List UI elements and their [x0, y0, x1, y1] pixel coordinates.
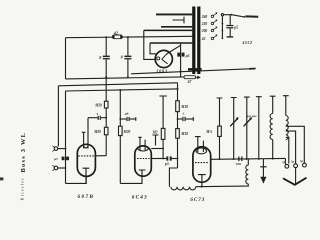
tube V1 grid dashed	[78, 155, 94, 157]
tube V3 6C73 envelope	[193, 137, 211, 187]
svg-text:1081: 1081	[156, 69, 168, 74]
svg-text:μse μsc: μse μsc	[245, 114, 257, 118]
wire secondary tap 1	[286, 126, 305, 163]
stem2 with trimmer	[230, 98, 238, 160]
transformer mains tap 200	[201, 27, 217, 33]
wire AVC bus B1	[58, 83, 177, 86]
svg-text:ℓp: ℓp	[300, 159, 303, 163]
terminal speaker 3	[303, 163, 307, 167]
wire heater riser to field coil	[246, 184, 248, 186]
terminal aerial A	[52, 146, 66, 152]
node junction dot rectifier output on HT line	[180, 71, 182, 73]
wire x120 column upper	[119, 90, 121, 126]
transformer output primary coil	[270, 114, 273, 140]
tube V2 dome	[138, 146, 148, 151]
svg-text:·1: ·1	[182, 111, 185, 115]
node junction dot V3 cathode	[201, 186, 203, 188]
transformer mains tap 220	[201, 20, 217, 26]
wire B1 left drop to aerial terminal	[57, 86, 59, 147]
transformer winding line 3	[144, 29, 193, 31]
wire rectifier plate feed upper	[144, 30, 156, 59]
transformer mains tap 240	[201, 13, 217, 19]
svg-text:M20: M20	[93, 130, 101, 134]
resistor R47 field feed	[184, 76, 201, 80]
node junction dot V2 plate line	[162, 148, 164, 150]
node junction dot right filter cap on top wire	[127, 36, 129, 38]
wire bottom HT return line to resistor R47	[66, 77, 184, 79]
svg-text:M20: M20	[123, 130, 131, 134]
capacitor 42 on top wire	[112, 35, 122, 39]
wire HT line under rectifier to right tip	[131, 69, 250, 74]
svg-text:·002: ·002	[235, 162, 241, 166]
tube V2 6C43 envelope	[135, 137, 152, 176]
tube V3 grid dashed	[195, 162, 209, 164]
node junction dot B1 x106	[105, 84, 107, 86]
stem3 with trimmer	[244, 97, 252, 159]
wire output line corner down to terminal	[284, 158, 286, 164]
svg-text:42: 42	[113, 30, 118, 35]
wire V2 plate line	[151, 148, 163, 150]
svg-text:607B: 607B	[78, 194, 95, 200]
wire field coil to output line	[247, 159, 249, 165]
tube V3 stub right	[202, 141, 204, 152]
terminal speaker 2	[294, 164, 298, 168]
node junction dot left filter cap on top wire	[105, 36, 107, 38]
node junction dot grid bus right end	[177, 88, 179, 90]
wire secondary tap 2	[286, 131, 296, 164]
terminal T grid V2 column	[159, 96, 167, 128]
svg-text:·1: ·1	[96, 112, 99, 116]
resistor M20 screen (x106 upper)	[104, 101, 108, 127]
svg-text:ℓp: ℓp	[291, 160, 294, 164]
rectifier tube V4 1081	[155, 50, 172, 67]
terminal earth E	[52, 165, 66, 171]
svg-text:μ5: μ5	[164, 162, 169, 166]
resistor M20 (x120)	[119, 126, 123, 183]
wire aerial line left vertical	[65, 91, 67, 183]
wire cathode return tube V2	[120, 176, 142, 183]
wire grid bus top edge	[66, 89, 178, 91]
terminal selector top	[221, 14, 223, 16]
capacitor aerial series	[62, 157, 69, 161]
svg-text:μ5: μ5	[185, 54, 190, 58]
svg-text:4152: 4152	[241, 40, 252, 45]
switch S1 mains blade	[232, 15, 259, 18]
tube V1 grid stub right from coupling cap	[87, 118, 89, 149]
svg-text:Kriesler: Kriesler	[19, 177, 24, 200]
svg-text:μ5: μ5	[53, 157, 58, 161]
wire primary coil bottom to line	[272, 140, 274, 159]
transformer bottom winding bar	[188, 68, 202, 71]
transformer winding line 4	[150, 42, 192, 44]
svg-text:μ5: μ5	[233, 25, 238, 29]
resistor M18 upper	[176, 101, 180, 129]
svg-text:M2: M2	[152, 131, 158, 135]
svg-text:47: 47	[187, 80, 192, 84]
transformer core bar right	[197, 7, 200, 75]
terminal T tube V3 top	[153, 135, 159, 146]
tube V2 stub right	[144, 140, 146, 150]
capacitor uS coupling (bottom middle)	[162, 156, 177, 160]
wire mains selector vertical	[221, 16, 223, 39]
svg-text:6C43: 6C43	[132, 194, 148, 200]
svg-text:240: 240	[201, 15, 208, 19]
capacitor line filter at mains	[226, 15, 233, 37]
wire secondary bottom tap	[286, 137, 289, 163]
tube V1 cathode	[83, 168, 90, 183]
wire V1 grid leak connection	[95, 155, 106, 157]
resistor M18 lower	[176, 129, 180, 168]
wire V3 plate to output line	[211, 157, 286, 160]
terminal speaker 1	[285, 164, 289, 168]
wire left vertical of HT loop	[65, 38, 67, 79]
node switch junction	[231, 14, 233, 16]
svg-text:6C73: 6C73	[190, 198, 205, 203]
transformer mains tap 45	[201, 35, 217, 41]
inductor heater winding	[171, 187, 196, 190]
svg-text:Boss 3 WL: Boss 3 WL	[20, 132, 27, 173]
wire heater drop	[169, 168, 177, 187]
transformer output secondary coil	[286, 116, 288, 140]
stem6 to output transformer secondary	[283, 96, 289, 116]
capacitor .002 tone	[238, 157, 242, 162]
transformer winding line 2	[161, 26, 192, 28]
svg-text:ℓp: ℓp	[282, 160, 285, 164]
tube V1 grid stub left	[82, 132, 86, 148]
node junction dot filter caps on return line	[105, 76, 107, 78]
node junction dots output line	[219, 158, 274, 161]
capacitor C filter 8uF right	[124, 37, 131, 77]
svg-text:M20: M20	[94, 103, 102, 107]
tube V1 inner cup	[84, 146, 89, 148]
tube V3 cathode	[198, 175, 206, 187]
speaker cone	[283, 168, 307, 185]
wire rectifier plate feed lower	[150, 43, 157, 54]
tube V2 cathode	[139, 170, 146, 176]
tube V3 dome	[196, 148, 207, 154]
svg-text:45: 45	[201, 37, 206, 41]
tube V2 grid dashed	[137, 158, 150, 160]
labels Sp	[282, 159, 303, 164]
transformer core bar left	[192, 7, 195, 75]
chassis ground arrow	[260, 159, 266, 184]
tube V1 607B envelope	[77, 118, 106, 184]
capacitor uS electrolytic at rectifier	[177, 53, 184, 57]
capacitor coupling right at x177	[177, 117, 194, 121]
svg-text:220: 220	[201, 22, 208, 26]
stem5 to output transformer primary	[270, 96, 276, 113]
wire heater line right	[196, 185, 247, 188]
node junction dot uS cap line	[177, 158, 179, 160]
wire V2 grid exit to uS cap	[151, 158, 166, 160]
resistor M.5 column stem1	[217, 98, 223, 159]
tube V3 grid stub left with T	[195, 137, 201, 152]
wire cathode return tube V1	[66, 177, 87, 184]
node selector dots	[222, 23, 224, 40]
scan edge mark	[0, 177, 3, 180]
wire plate load column x177 from B1	[177, 83, 179, 101]
node junction dot grid bus x120	[119, 89, 121, 91]
tube V2 grid stub left	[138, 137, 141, 150]
inductor field coil	[246, 165, 249, 184]
transformer winding line 1	[156, 13, 192, 15]
svg-text:μb: μb	[124, 112, 129, 116]
wire dark tip of HT line	[249, 68, 255, 70]
svg-text:8: 8	[121, 55, 123, 60]
svg-text:M18: M18	[180, 132, 188, 136]
svg-text:200: 200	[201, 29, 208, 33]
capacitor C filter 8uF left	[103, 37, 110, 101]
resistor M2 (x163)	[161, 128, 165, 158]
wire rectifier cathode vertical	[180, 43, 182, 77]
svg-text:8: 8	[99, 55, 101, 60]
capacitor coupling to V2 grid	[119, 117, 135, 121]
resistor M20 grid leak (x106 lower)	[104, 127, 108, 155]
transformer tap tick	[173, 17, 185, 24]
capacitor coupling to V1 grid	[88, 116, 107, 120]
svg-text:M·5: M·5	[205, 130, 212, 134]
svg-text:M18: M18	[180, 105, 188, 109]
stem4	[256, 97, 262, 159]
power transformer T1	[144, 7, 202, 75]
wire rectifier cathode diagonal to filter	[167, 45, 181, 54]
wire top HT line from filter node to power transformer	[66, 36, 193, 37]
wire selector to switch	[224, 14, 232, 16]
